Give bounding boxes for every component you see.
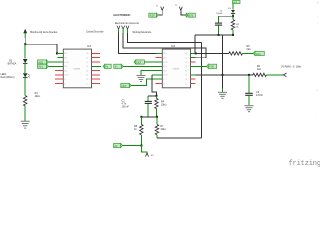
- IC2 left pin 8 red: [155, 83, 162, 85]
- svg-text:O3: O3: [185, 66, 187, 68]
- wire counter electrode to IC2 pin1: [119, 33, 157, 53]
- svg-text:A1/1: A1/1: [38, 66, 44, 69]
- svg-text:IC1: IC1: [87, 44, 92, 48]
- IC1 left pin 2 stub: [58, 57, 64, 59]
- net label box to IC2 pin 7: [121, 79, 163, 88]
- pin header down 0V: [141, 146, 154, 158]
- IC1 right pin 4 stub: [92, 65, 102, 67]
- svg-text:100 nF: 100 nF: [122, 105, 130, 108]
- svg-text:O2: O2: [86, 79, 88, 81]
- wire R5 to label: [243, 52, 256, 54]
- svg-text:10kΩ: 10kΩ: [161, 103, 167, 106]
- svg-text:OUT1: OUT1: [163, 62, 167, 64]
- electrode pin 1 (counter): [117, 26, 120, 34]
- wire C2 top node: [148, 95, 156, 97]
- net label box at IC2 pin 4 right: [191, 64, 217, 69]
- junction: [156, 95, 158, 97]
- wire A0 vertical to junction: [24, 38, 26, 44]
- junction: [140, 145, 142, 147]
- resistor R8 lower-left: [140, 117, 144, 146]
- IC2 pin name texts: [163, 53, 187, 85]
- svg-text:IN1+: IN1+: [64, 53, 67, 55]
- net label box to IC2 pin 3: [134, 60, 162, 65]
- svg-text:Brocha A0 de la Nucleo: Brocha A0 de la Nucleo: [30, 30, 58, 34]
- svg-text:OUT1: OUT1: [64, 62, 68, 64]
- svg-text:IN1-: IN1-: [64, 58, 67, 60]
- edge clutter marks: [316, 2, 320, 117]
- svg-text:I4+: I4+: [86, 62, 88, 64]
- junction: [156, 116, 158, 118]
- wire D2 to LED1: [24, 64, 26, 73]
- svg-text:22kΩ: 22kΩ: [35, 95, 41, 98]
- wire IC2 pin1 out: [191, 52, 196, 54]
- resistor R6: [253, 73, 267, 76]
- svg-text:IN2+: IN2+: [64, 66, 67, 68]
- svg-text:Vout: Vout: [256, 53, 261, 56]
- capacitor C1: [215, 23, 222, 35]
- svg-text:O2: O2: [185, 79, 187, 81]
- wire A0 down to diode: [24, 44, 26, 58]
- junction: [232, 15, 234, 17]
- net label box left of TL1: [149, 13, 159, 17]
- svg-text:I2: I2: [86, 83, 87, 85]
- op-amp IC2: [162, 44, 190, 88]
- wire R1 to ground: [24, 106, 26, 121]
- svg-text:ELECTRODES1: ELECTRODES1: [114, 15, 132, 17]
- junction: [232, 34, 234, 36]
- svg-text:Working Electrode: Working Electrode: [133, 31, 152, 34]
- svg-text:2kΩ: 2kΩ: [247, 48, 252, 51]
- wire bottom loop: [157, 137, 202, 139]
- IC2 right pin 7 red: [191, 78, 196, 80]
- svg-text:IN2-: IN2-: [64, 70, 67, 72]
- svg-text:OUT: OUT: [137, 61, 143, 64]
- svg-text:IN1+: IN1+: [163, 53, 166, 55]
- IC1 pin name texts: [64, 53, 88, 85]
- pin header PWM input: [283, 73, 286, 77]
- wire IC2 pin 6 to PWM row: [191, 74, 196, 76]
- svg-text:IN2+: IN2+: [163, 66, 166, 68]
- svg-text:IN1-: IN1-: [163, 58, 166, 60]
- wire D1 to node: [232, 14, 234, 17]
- svg-text:4.5V: 4.5V: [150, 15, 155, 18]
- ground GND1: [21, 121, 30, 128]
- power net +3V3 at top: [233, 1, 241, 10]
- svg-text:LM324: LM324: [173, 68, 180, 70]
- wire down to ground: [222, 35, 224, 88]
- wire junction to IC1 pin1: [25, 44, 63, 53]
- diode D2: [23, 59, 28, 63]
- resistor R4: [155, 96, 159, 117]
- capacitor C3: [245, 75, 253, 105]
- svg-text:IC2: IC2: [171, 44, 176, 48]
- wire long vertical right of IC2: [201, 43, 203, 138]
- svg-text:V+: V+: [64, 79, 66, 81]
- junction: [140, 116, 142, 118]
- svg-text:BAT42A: BAT42A: [8, 62, 17, 65]
- svg-text:470nF: 470nF: [256, 94, 263, 97]
- resistor R5: [229, 52, 243, 55]
- wire node to C1: [219, 15, 234, 17]
- IC2 right pin 8 red: [191, 83, 196, 85]
- resistor R1: [23, 96, 27, 106]
- IC1 left pin 1 stub: [57, 52, 63, 54]
- wire to IC2 pin 4: [123, 65, 162, 67]
- svg-text:1kΩ: 1kΩ: [257, 68, 262, 71]
- svg-text:I4+: I4+: [185, 62, 187, 64]
- svg-text:LM324: LM324: [74, 68, 81, 70]
- pin header TL2: [175, 5, 186, 15]
- wire from HPF node down: [194, 35, 196, 54]
- svg-text:Red (633nm): Red (633nm): [1, 76, 15, 79]
- capacitor C2: [145, 96, 152, 117]
- IC2 right pin 3 red: [191, 61, 196, 63]
- svg-text:0V: 0V: [114, 145, 117, 148]
- svg-text:100nF: 100nF: [216, 13, 223, 15]
- svg-text:IN2-: IN2-: [163, 70, 166, 72]
- svg-text:Contra Elect side: Contra Elect side: [86, 30, 104, 33]
- ground at IC2 pin 5: [137, 71, 163, 82]
- junction: [56, 52, 58, 54]
- resistor R7 lower-right: [155, 117, 159, 138]
- IC2 left pin 2 red: [155, 57, 162, 59]
- svg-text:3V PWM - 3 / 1kHz: 3V PWM - 3 / 1kHz: [281, 66, 302, 69]
- electrode pin 3 (working): [126, 26, 129, 34]
- op-amp IC1: [63, 44, 91, 88]
- svg-text:I3+: I3+: [185, 75, 187, 77]
- resistor R2: [231, 16, 235, 35]
- node A0 header pin (arrow up): [23, 29, 27, 38]
- junction: [195, 52, 197, 54]
- junction: [218, 34, 220, 36]
- svg-text:fritzing: fritzing: [289, 160, 320, 168]
- junction: [248, 74, 250, 76]
- ground GND3: [218, 92, 227, 98]
- svg-text:OUT2: OUT2: [64, 75, 68, 77]
- wire HPF bottom node: [195, 34, 233, 36]
- svg-text:OUT2: OUT2: [163, 75, 167, 77]
- svg-text:O4: O4: [185, 53, 187, 55]
- net label box at IC1 OUT: [103, 64, 111, 69]
- net label box feeding IC2: [114, 64, 163, 69]
- IC1 left pins 5-8 red: [55, 71, 64, 84]
- wire IC2 pin 6 down to RC filter: [152, 74, 162, 76]
- svg-text:I3+: I3+: [86, 75, 88, 77]
- svg-text:V+: V+: [163, 79, 165, 81]
- ground GND4: [245, 106, 254, 112]
- wire LED1 to R1: [24, 78, 26, 96]
- IC1 right pins red: [92, 53, 101, 83]
- svg-text:4.5V: 4.5V: [209, 66, 214, 69]
- diode D1: [231, 10, 235, 13]
- wire lower node: [141, 116, 157, 118]
- wire working electrode loop right: [128, 33, 202, 42]
- pin header TL1: [156, 5, 164, 15]
- net label box Vout: [253, 51, 264, 56]
- wire R6 to input pin: [267, 74, 284, 76]
- net label box to IC1 pin 3: [38, 60, 64, 65]
- net label box 0V: [114, 143, 142, 148]
- svg-text:O3: O3: [86, 66, 88, 68]
- svg-text:Electrodo de referencia: Electrodo de referencia: [115, 22, 139, 25]
- net label box right of TL2: [186, 13, 195, 17]
- svg-text:I2: I2: [185, 83, 186, 85]
- svg-text:10kΩ: 10kΩ: [160, 128, 166, 131]
- LED LED1: [23, 73, 30, 77]
- electrode pin 2 (reference): [122, 26, 125, 34]
- svg-text:OUT: OUT: [122, 85, 128, 88]
- junction: [24, 43, 26, 45]
- svg-text:O4: O4: [86, 53, 88, 55]
- svg-text:3V3: 3V3: [189, 15, 194, 18]
- net label box to IC1 pin 4: [38, 64, 64, 69]
- junction: [222, 74, 224, 76]
- wire reference electrode loop right: [123, 33, 206, 58]
